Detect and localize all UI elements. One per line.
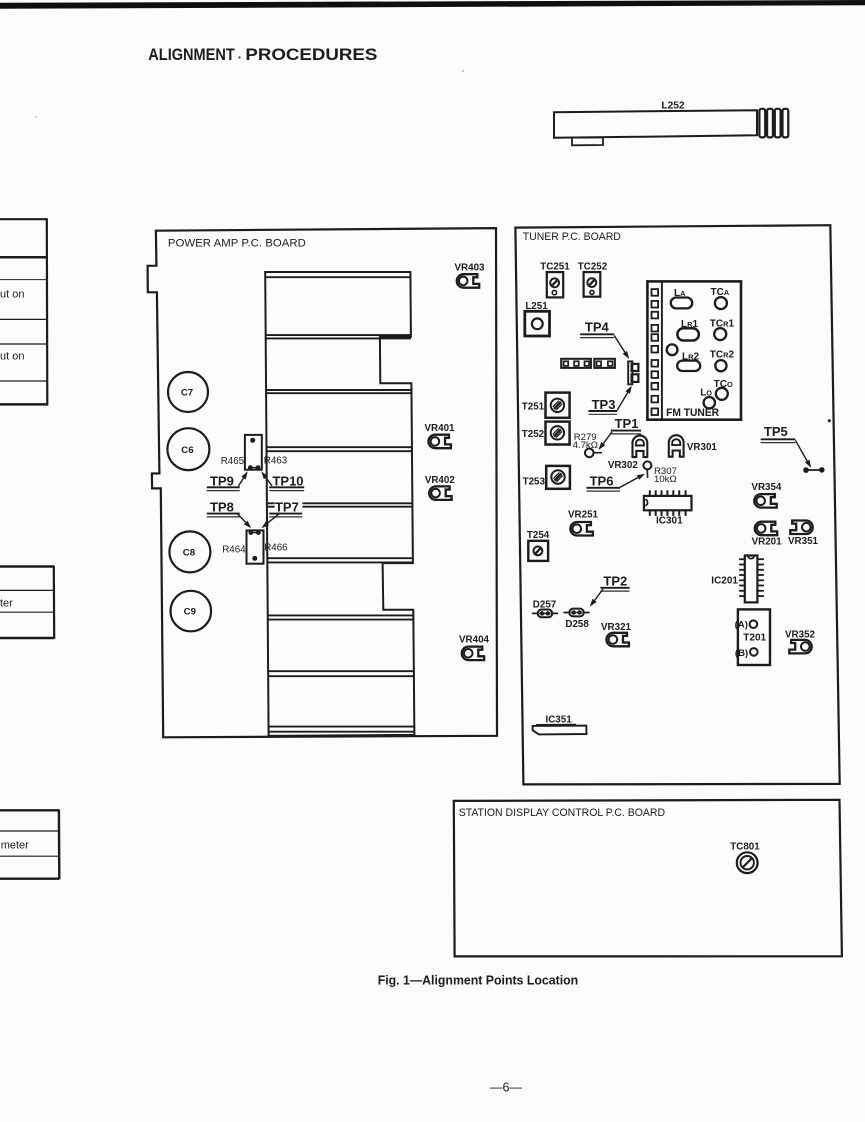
svg-text:Fig. 1—Alignment Points Locati: Fig. 1—Alignment Points Location xyxy=(378,972,579,987)
test point TP1 xyxy=(599,416,642,450)
svg-text:T252: T252 xyxy=(522,429,545,440)
test point TP8 xyxy=(207,500,251,529)
coil L252 body xyxy=(554,110,757,145)
potentiometer VR301 xyxy=(669,435,718,457)
printing speck xyxy=(828,419,831,422)
diode D257 xyxy=(532,600,558,618)
scan specks xyxy=(238,56,240,58)
svg-text:T251: T251 xyxy=(522,402,545,413)
svg-text:C6: C6 xyxy=(181,445,193,456)
svg-text:POWER AMP P.C. BOARD: POWER AMP P.C. BOARD xyxy=(168,237,306,249)
svg-text:VR401: VR401 xyxy=(425,423,456,434)
svg-text:TC252: TC252 xyxy=(578,262,608,273)
svg-text:ut on: ut on xyxy=(0,288,24,300)
svg-text:VR302: VR302 xyxy=(608,460,639,471)
station display control board outline xyxy=(454,800,842,957)
svg-text:D258: D258 xyxy=(565,619,589,630)
table fragment (left edge, frequency meter row) xyxy=(0,809,59,879)
svg-text:TP7: TP7 xyxy=(275,500,299,515)
resistors R464 R466 body xyxy=(247,530,264,564)
svg-text:VR251: VR251 xyxy=(568,509,599,520)
svg-text:VR201: VR201 xyxy=(752,536,783,547)
svg-text:T201: T201 xyxy=(743,633,766,644)
svg-text:STATION DISPLAY CONTROL P.C. B: STATION DISPLAY CONTROL P.C. BOARD xyxy=(459,807,666,819)
table fragment (left edge, cropped) xyxy=(0,218,47,405)
svg-text:TP2: TP2 xyxy=(603,573,627,588)
capacitor C9 xyxy=(171,591,212,632)
svg-text:TP3: TP3 xyxy=(592,397,616,412)
test point TP5 xyxy=(761,424,812,468)
coil T252 xyxy=(522,422,570,445)
power amp board outline xyxy=(148,228,497,737)
svg-text:T253: T253 xyxy=(523,476,546,487)
IC IC351 xyxy=(533,715,587,735)
svg-text:R465: R465 xyxy=(221,456,245,467)
svg-text:L252: L252 xyxy=(661,101,685,112)
trimmer capacitor TC252 xyxy=(578,262,608,297)
svg-text:10kΩ: 10kΩ xyxy=(654,474,677,485)
trimmer capacitor TC251 xyxy=(540,262,570,298)
test point TP10 xyxy=(261,471,304,490)
trimmer VR251 xyxy=(568,509,599,535)
coil L251 xyxy=(525,301,550,336)
alignment component for TP3/TP4 xyxy=(628,361,638,384)
trimmer VR401 xyxy=(425,423,456,448)
trimmer VR354 xyxy=(751,482,782,508)
scan edge bar xyxy=(0,0,865,9)
coil LR1 xyxy=(677,319,698,341)
svg-text:IC301: IC301 xyxy=(656,515,683,526)
svg-text:VR321: VR321 xyxy=(601,622,632,633)
test point TP9 xyxy=(207,471,248,490)
heatsink block outline xyxy=(265,272,414,736)
svg-text:TCR2: TCR2 xyxy=(710,350,735,361)
svg-text:TC801: TC801 xyxy=(730,841,760,852)
IC IC301 xyxy=(644,490,692,516)
FM tuner module outline xyxy=(647,281,741,419)
coil T251 xyxy=(522,393,570,418)
capacitor C8 xyxy=(169,531,210,572)
test point TP7 xyxy=(261,500,302,529)
svg-text:TC251: TC251 xyxy=(540,262,570,273)
svg-text:TP5: TP5 xyxy=(764,424,788,439)
svg-text:C7: C7 xyxy=(181,388,193,399)
svg-text:VR354: VR354 xyxy=(751,482,782,493)
connector pin strip xyxy=(561,359,615,368)
svg-text:TP9: TP9 xyxy=(210,473,234,488)
test point TP2 xyxy=(590,573,630,606)
tuner board outline xyxy=(515,225,839,784)
trimmer VR352 xyxy=(785,630,816,654)
svg-text:meter: meter xyxy=(1,839,29,851)
heatsink fin separation lines xyxy=(265,277,414,732)
pad circle xyxy=(667,344,678,355)
trimmer VR403 xyxy=(455,263,486,288)
svg-text:(A): (A) xyxy=(735,620,748,631)
resistor R279 4.7k xyxy=(573,432,602,457)
trimmer VR404 xyxy=(459,634,490,660)
trimmer TCR2 xyxy=(710,350,735,372)
svg-text:VR403: VR403 xyxy=(455,263,486,274)
capacitor C6 xyxy=(167,428,209,470)
coil LA xyxy=(671,288,692,309)
svg-text:TP8: TP8 xyxy=(210,500,234,515)
test point TP6 xyxy=(586,474,645,492)
resistors R465 R463 body xyxy=(245,435,262,470)
svg-text:TP10: TP10 xyxy=(272,473,303,488)
svg-text:TP4: TP4 xyxy=(585,319,610,334)
svg-text:(B): (B) xyxy=(735,648,748,659)
svg-text:VR404: VR404 xyxy=(459,634,490,645)
coil T253 xyxy=(523,466,570,489)
trimmer VR321 xyxy=(601,622,632,646)
svg-text:TP1: TP1 xyxy=(615,416,639,431)
test point TP4 xyxy=(580,319,629,359)
svg-text:ut on: ut on xyxy=(0,351,24,363)
svg-text:R466: R466 xyxy=(264,543,288,554)
potentiometer VR302 xyxy=(608,436,647,471)
transformer T201 xyxy=(735,609,770,665)
jumper for TP5 xyxy=(803,467,824,473)
diode D258 xyxy=(564,609,590,630)
IC IC201 xyxy=(739,556,764,603)
trimmer capacitor TC801 xyxy=(730,841,760,873)
coil LR2 xyxy=(677,352,700,372)
coil L252 winding ridges xyxy=(759,109,788,138)
trimmer VR402 xyxy=(425,475,456,500)
svg-text:4.7kΩ: 4.7kΩ xyxy=(573,440,598,451)
svg-text:R463: R463 xyxy=(264,456,288,467)
svg-text:TP6: TP6 xyxy=(590,474,614,489)
svg-text:VR402: VR402 xyxy=(425,475,456,486)
trimmer TCR1 xyxy=(710,318,735,340)
svg-text:C8: C8 xyxy=(183,548,196,559)
svg-text:VR351: VR351 xyxy=(788,536,819,547)
trimmer VR201 xyxy=(752,522,783,548)
svg-text:TUNER P.C. BOARD: TUNER P.C. BOARD xyxy=(523,231,621,243)
capacitor C7 xyxy=(168,372,208,412)
svg-text:PROCEDURES: PROCEDURES xyxy=(245,46,377,64)
svg-text:C9: C9 xyxy=(184,607,196,618)
svg-text:VR301: VR301 xyxy=(687,442,718,453)
svg-text:T254: T254 xyxy=(527,530,550,541)
svg-text:R464: R464 xyxy=(222,544,246,555)
svg-text:—6—: —6— xyxy=(490,1081,522,1095)
trimmer TCo xyxy=(714,379,733,400)
test point TP3 xyxy=(589,386,632,415)
trimmer VR351 xyxy=(788,521,819,547)
coil T254 xyxy=(527,530,550,561)
svg-text:ALIGNMENT: ALIGNMENT xyxy=(148,46,235,64)
svg-text:IC201: IC201 xyxy=(711,575,738,586)
coil Lo xyxy=(700,388,715,409)
resistor R307 10k xyxy=(643,461,677,485)
svg-text:ter: ter xyxy=(0,597,13,609)
trimmer TCA xyxy=(711,287,730,309)
table fragment (left edge, meter row) xyxy=(0,566,54,639)
